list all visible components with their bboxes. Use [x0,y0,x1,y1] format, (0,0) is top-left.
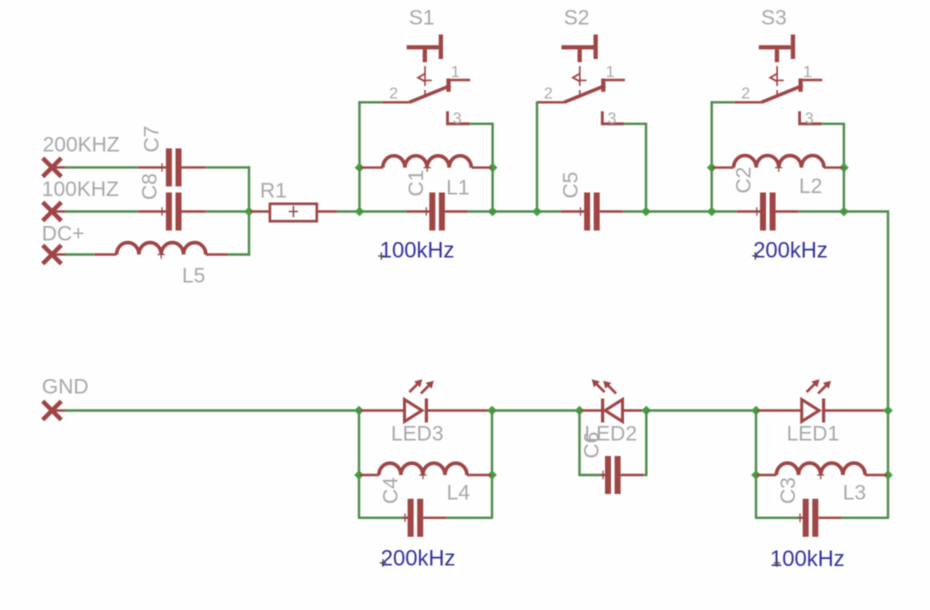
svg-text:C4: C4 [380,477,403,504]
svg-text:L5: L5 [182,265,205,288]
wire LED3 to LED2 [492,409,580,411]
junction C2 left [707,207,717,217]
wire 100KHZ net [65,210,138,212]
wire C1 to C5 [493,210,537,212]
junction LED3 right [487,406,497,416]
wire R1 to node [337,210,360,212]
junction L1 right [488,163,498,173]
net label 200kHz bottom [380,545,456,570]
wire C6 columns [580,411,647,477]
wire tank4 columns [359,411,492,519]
svg-text:DC+: DC+ [42,223,85,246]
pin 1 [605,79,625,81]
junction C5 left [532,207,542,217]
svg-text:100kHz: 100kHz [770,546,845,571]
svg-text:L4: L4 [447,482,471,505]
wire S3 pin3 to tank [822,124,845,168]
svg-text:1: 1 [451,64,460,81]
svg-text:C1: C1 [405,170,428,197]
svg-text:C3: C3 [777,477,800,504]
capacitor C1 [360,193,493,231]
wire L2 columns down [712,168,844,212]
capacitor C6 [580,432,647,494]
junction C2 right [839,207,849,217]
junction C1 right [488,207,498,217]
svg-text:S3: S3 [761,6,787,29]
wire right side down [844,210,889,410]
junction L3 left [751,470,761,480]
supply pin 100KHZ [42,178,119,221]
inductor L5 [94,243,250,288]
svg-text:100KHZ: 100KHZ [42,178,119,201]
inductor L4 [359,463,492,504]
LED LED3 [360,379,491,445]
switch S3 [734,6,822,127]
wire S1 pin2 to tank [358,101,382,167]
wire C7 to junction column [206,166,250,168]
junction LED1 right [883,406,893,416]
svg-text:L1: L1 [446,177,469,200]
wire L1 columns down [360,168,493,212]
junction L2 left [707,163,717,173]
svg-text:LED3: LED3 [391,423,444,446]
wire S2 pin3 down [624,124,647,212]
inductor L1 [360,156,493,200]
wire C5 to C2 [646,210,712,212]
supply pin DC+ [42,223,85,264]
inductor L2 [712,156,844,198]
svg-text:C8: C8 [139,173,162,200]
svg-text:200kHz: 200kHz [753,238,828,263]
junction LED2 right [642,406,652,416]
pin 3 [448,111,470,124]
junction C1 left [355,207,365,217]
junction LED1 left [751,406,761,416]
svg-text:GND: GND [42,376,89,399]
junction node at R1 left [244,207,254,217]
wire vertical column x=249 [248,166,250,255]
pin 2 [734,101,761,103]
net label 100kHz bottom [770,546,845,571]
svg-text:C5: C5 [560,172,583,199]
capacitor C4 [359,499,492,537]
svg-text:1: 1 [606,64,615,81]
capacitor C7 [138,126,206,187]
supply pin 200KHZ [43,134,120,177]
net label 100kHz top [378,237,454,262]
svg-text:200kHz: 200kHz [381,545,456,570]
svg-text:L2: L2 [799,175,822,198]
supply pin GND [42,376,89,420]
capacitor C3 [756,499,888,537]
svg-text:C7: C7 [141,126,164,153]
wire LED2 to LED1 [646,409,756,411]
junction L3 right [883,470,893,480]
LED LED1 [757,379,888,445]
capacitor C5 [537,172,646,231]
junction L4 right [487,470,497,480]
wire 200KHZ net [65,166,138,168]
svg-text:C6: C6 [581,432,604,459]
svg-text:3: 3 [453,111,462,128]
switch S1 [382,6,470,127]
pin 2 [537,101,564,103]
junction LED3 left [354,406,364,416]
wire S3 pin2 to tank [711,101,735,167]
svg-text:S2: S2 [564,6,590,29]
capacitor C8 [138,173,206,230]
svg-text:2: 2 [741,85,750,102]
wire S2 pin2 down [536,101,538,211]
svg-text:S1: S1 [409,6,435,29]
svg-text:2: 2 [389,85,398,102]
resistor R1 [250,180,337,222]
svg-text:200KHZ: 200KHZ [43,134,120,157]
junction C5 right [641,207,651,217]
svg-text:L3: L3 [843,482,866,505]
junction L4 left [354,470,364,480]
net label 200kHz top [752,238,828,263]
svg-text:100kHz: 100kHz [380,237,455,262]
capacitor C2 [712,193,844,231]
wire tank3 columns [756,411,888,519]
LED LED2 [581,379,646,445]
pin 2 [382,101,409,103]
wire DC+ net [65,253,94,255]
svg-text:LED1: LED1 [787,423,840,446]
svg-text:C2: C2 [733,167,756,194]
wire C8 to junction column [206,210,249,212]
inductor L3 [756,463,888,504]
junction L2 right [839,163,849,173]
svg-text:3: 3 [805,111,814,128]
svg-text:3: 3 [608,111,617,128]
svg-text:2: 2 [544,85,553,102]
svg-text:1: 1 [803,64,812,81]
junction L1 left [355,163,365,173]
pin 1 [451,79,471,81]
svg-text:R1: R1 [260,180,287,203]
pin 3 [602,111,624,124]
pin 3 [800,111,822,124]
switch S2 [537,6,625,127]
wire GND net [65,409,359,411]
pin 1 [803,79,823,81]
junction LED2 left [575,406,585,416]
wire S1 pin3 to tank [470,124,494,168]
